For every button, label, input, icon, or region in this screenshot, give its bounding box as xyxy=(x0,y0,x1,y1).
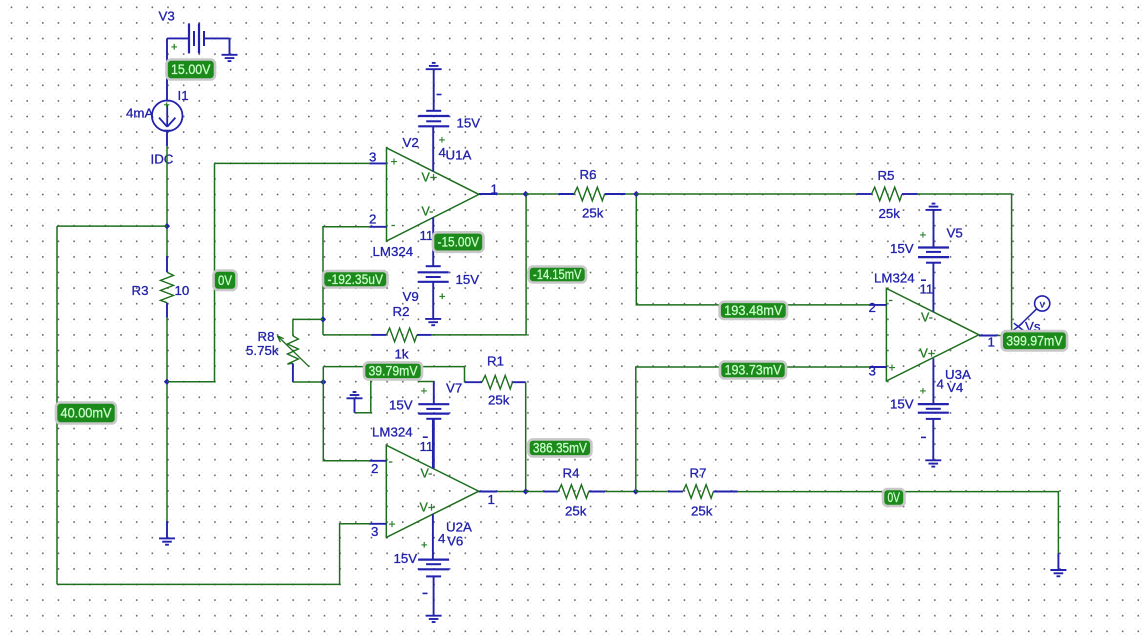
wire junction to R6 xyxy=(526,193,559,195)
svg-text:-192.35uV: -192.35uV xyxy=(328,272,384,287)
U1A output pin 1 stub xyxy=(479,193,497,195)
ground below V6 xyxy=(426,576,442,622)
resistor R1 xyxy=(465,375,526,389)
battery V6 minus mark xyxy=(423,592,428,594)
svg-text:+: + xyxy=(439,291,445,303)
svg-text:R5: R5 xyxy=(878,168,895,183)
junction node (323,382) xyxy=(320,379,326,385)
value label 193.48mV xyxy=(720,302,787,319)
svg-text:-14.15mV: -14.15mV xyxy=(533,267,582,282)
svg-text:+: + xyxy=(421,540,427,552)
wire V3 to I1 xyxy=(166,38,168,100)
svg-text:4: 4 xyxy=(937,377,944,392)
potentiometer R8 xyxy=(277,336,309,382)
U1A pin 2 stub xyxy=(369,226,386,228)
U1A pin 3 stub xyxy=(369,162,386,164)
wire junction to R4 xyxy=(526,491,544,493)
svg-text:-15.00V: -15.00V xyxy=(438,235,480,250)
svg-text:0V: 0V xyxy=(218,273,232,288)
U2A pin 3 stub xyxy=(369,523,386,525)
svg-text:I1: I1 xyxy=(178,88,189,103)
svg-text:V2: V2 xyxy=(403,135,419,150)
svg-text:39.79mV: 39.79mV xyxy=(369,364,418,379)
wire 0V net xyxy=(167,163,215,381)
svg-text:IDC: IDC xyxy=(151,152,174,167)
ground below V4 xyxy=(925,419,941,467)
wire R2 left lead xyxy=(323,334,372,336)
wire rail down to R1 xyxy=(464,367,466,383)
wire R2 to U1A output node xyxy=(432,194,526,335)
svg-text:15V: 15V xyxy=(456,272,480,287)
svg-text:25k: 25k xyxy=(879,206,901,221)
resistor R2 xyxy=(372,328,432,342)
svg-text:+: + xyxy=(439,135,445,147)
U1A V- power pin wire xyxy=(432,218,434,267)
wire R7 to bottom right ground xyxy=(738,492,1059,553)
junction node (167,382) xyxy=(164,379,170,385)
svg-text:V-: V- xyxy=(422,205,434,219)
wire rail to battery V7 xyxy=(418,381,434,383)
svg-text:3: 3 xyxy=(369,150,376,165)
svg-text:15V: 15V xyxy=(890,397,914,412)
wire left rail down xyxy=(56,226,58,584)
wire R6 to junction (636,194) xyxy=(625,193,636,195)
ground above V2 xyxy=(426,63,442,111)
svg-text:U1A: U1A xyxy=(446,148,472,163)
wire riser junction (636,491) to U3A pin 3 xyxy=(636,367,869,492)
svg-text:5.75k: 5.75k xyxy=(246,343,279,358)
ground below R3 xyxy=(159,521,175,545)
svg-text:R2: R2 xyxy=(393,304,410,319)
battery V6 xyxy=(418,560,449,577)
svg-text:15.00V: 15.00V xyxy=(171,62,211,77)
svg-text:R7: R7 xyxy=(690,466,707,481)
svg-text:R6: R6 xyxy=(580,167,597,182)
svg-text:V4: V4 xyxy=(947,380,963,395)
battery V4 xyxy=(918,404,949,419)
battery V4 minus mark xyxy=(921,436,926,438)
U2A output pin 1 stub xyxy=(479,491,497,493)
svg-text:15V: 15V xyxy=(389,398,413,413)
wire ground drop from rail xyxy=(355,367,371,413)
svg-text:+: + xyxy=(421,386,427,398)
value label 0V (output node) xyxy=(883,489,905,506)
svg-text:R8: R8 xyxy=(258,329,275,344)
battery V7 minus mark xyxy=(423,436,428,438)
junction node (636,194) xyxy=(633,191,639,197)
svg-text:11: 11 xyxy=(920,282,934,297)
svg-text:+: + xyxy=(391,155,398,169)
svg-text:+: + xyxy=(164,100,170,112)
wire U1A output to junction (526,194) xyxy=(497,193,526,195)
op-amp U1A xyxy=(387,148,479,241)
wire node (323,319) to R8 xyxy=(293,318,323,320)
wire U2A output to junction xyxy=(497,491,526,493)
svg-text:+: + xyxy=(171,42,177,54)
wire node (167,226) to left rail xyxy=(57,225,167,227)
svg-text:399.97mV: 399.97mV xyxy=(1006,333,1062,348)
wire U1A pin 2 to node (323,319) xyxy=(323,227,369,335)
svg-text:v: v xyxy=(1040,299,1045,310)
current source I1 bottom pin xyxy=(166,131,168,146)
U2A V+ power pin wire xyxy=(432,514,434,559)
svg-text:R4: R4 xyxy=(563,466,580,481)
svg-text:1: 1 xyxy=(988,335,995,350)
wire junction to R7 xyxy=(636,491,668,493)
wire bottom rail xyxy=(57,583,340,585)
battery V5 minus mark xyxy=(921,279,926,281)
svg-text:LM324: LM324 xyxy=(373,244,414,259)
junction node (526,491) xyxy=(523,488,529,494)
svg-text:11: 11 xyxy=(420,439,434,454)
wire junction to R5 xyxy=(636,193,856,195)
wire R3 to ground xyxy=(166,318,168,522)
svg-text:25k: 25k xyxy=(582,206,604,221)
svg-text:15V: 15V xyxy=(394,551,418,566)
svg-text:R3: R3 xyxy=(132,283,149,298)
wire I1 to node (167,226) xyxy=(166,146,168,256)
svg-text:25k: 25k xyxy=(488,393,510,408)
wire R8 to node (323,382) xyxy=(293,381,323,383)
battery V3 xyxy=(167,23,230,54)
current source I1 xyxy=(152,101,183,132)
svg-text:40.00mV: 40.00mV xyxy=(61,406,112,421)
resistor R6 xyxy=(558,187,625,201)
resistor R3 xyxy=(161,256,174,318)
svg-text:V+: V+ xyxy=(422,171,438,185)
U3A pin 2 stub xyxy=(869,304,886,306)
svg-text:1k: 1k xyxy=(395,347,409,362)
svg-text:V-: V- xyxy=(421,467,433,481)
battery V7 xyxy=(418,382,449,469)
value label -15.00V xyxy=(433,232,484,252)
value label 386.35mV xyxy=(528,439,591,456)
svg-text:V6: V6 xyxy=(447,534,463,549)
junction node (167,226) xyxy=(164,223,170,229)
svg-text:2: 2 xyxy=(869,300,876,315)
battery V9 xyxy=(418,266,449,282)
wire R1 to U2A output node xyxy=(525,382,527,491)
U1A V+ power pin wire xyxy=(432,126,434,171)
svg-text:V+: V+ xyxy=(420,501,436,515)
value label 39.79mV xyxy=(364,362,422,379)
svg-text:-: - xyxy=(889,292,893,307)
battery V2 xyxy=(418,111,449,127)
op-amp U2A xyxy=(386,445,478,537)
svg-text:+: + xyxy=(920,229,926,241)
svg-text:3: 3 xyxy=(371,524,378,539)
U2A V- power pin wire xyxy=(432,419,434,469)
svg-text:1: 1 xyxy=(488,492,495,507)
svg-text:3: 3 xyxy=(869,364,876,379)
svg-text:R1: R1 xyxy=(487,354,504,369)
svg-text:11: 11 xyxy=(420,228,434,243)
value label 15.00V xyxy=(167,60,216,80)
wire riser to U2A pin 3 xyxy=(340,524,370,585)
wire node riser to 39.79mV rail xyxy=(322,367,324,382)
ground bottom right xyxy=(1050,553,1066,576)
value label 399.97mV xyxy=(1002,331,1067,350)
junction node (323,319) xyxy=(320,316,326,322)
U2A pin 2 stub xyxy=(369,460,386,462)
svg-text:4: 4 xyxy=(438,531,445,546)
svg-text:V5: V5 xyxy=(947,226,963,241)
svg-text:25k: 25k xyxy=(565,504,587,519)
value label 0V (R3 node) xyxy=(214,271,237,291)
svg-text:2: 2 xyxy=(371,461,378,476)
wire R5 to U3A output node xyxy=(918,194,1012,336)
svg-text:LM324: LM324 xyxy=(372,425,413,440)
svg-text:V9: V9 xyxy=(403,289,419,304)
op-amp U3A xyxy=(886,288,979,381)
svg-text:-: - xyxy=(391,217,395,232)
svg-text:V+: V+ xyxy=(920,347,936,361)
wire 39.79mV rail xyxy=(323,366,464,368)
current source I1 minus mark xyxy=(164,129,170,131)
resistor R5 xyxy=(857,187,918,201)
svg-text:10: 10 xyxy=(175,283,190,298)
battery V5 xyxy=(918,248,949,263)
junction node (636,491) xyxy=(633,488,639,494)
probe Vs xyxy=(1013,296,1050,331)
svg-text:V7: V7 xyxy=(446,381,462,396)
battery V2 minus mark xyxy=(437,94,442,96)
svg-text:LM324: LM324 xyxy=(874,271,915,286)
svg-text:386.35mV: 386.35mV xyxy=(533,441,587,456)
svg-text:+: + xyxy=(389,517,396,531)
svg-text:25k: 25k xyxy=(691,504,713,519)
svg-text:4mA: 4mA xyxy=(126,106,153,121)
U3A pin 3 stub xyxy=(869,366,886,368)
svg-text:+: + xyxy=(920,385,926,397)
wire U1A pin 3 net xyxy=(215,162,370,164)
resistor R7 xyxy=(668,485,738,499)
ground below V9 xyxy=(425,282,441,325)
svg-text:-: - xyxy=(389,454,393,469)
svg-text:193.48mV: 193.48mV xyxy=(724,303,782,318)
wire U3A output to node xyxy=(997,335,1012,337)
svg-text:193.73mV: 193.73mV xyxy=(725,363,782,378)
value label -192.35uV xyxy=(323,271,388,288)
wire node (323,382) to U2A pin 2 xyxy=(323,382,369,461)
svg-text:V3: V3 xyxy=(159,9,175,24)
junction node (526,194) xyxy=(523,191,529,197)
U3A V- power pin wire xyxy=(932,263,934,312)
value label 40.00mV xyxy=(56,403,116,424)
value label 193.73mV xyxy=(720,362,786,379)
svg-text:+: + xyxy=(889,361,896,375)
svg-text:2: 2 xyxy=(369,212,376,227)
ground for V3 xyxy=(222,55,238,61)
value label -14.15mV xyxy=(529,267,587,283)
svg-text:15V: 15V xyxy=(457,116,481,131)
svg-text:15V: 15V xyxy=(890,241,914,256)
wire junction (636,194) to U3A pin 2 xyxy=(636,194,869,305)
inverted ground on 39.79mV net xyxy=(347,392,363,413)
wire R4 to junction (636,491) xyxy=(605,491,636,493)
svg-text:V-: V- xyxy=(921,311,933,325)
ground above V5 xyxy=(926,204,942,248)
svg-text:U2A: U2A xyxy=(446,520,472,535)
svg-text:0V: 0V xyxy=(888,490,901,505)
U3A output pin 1 stub xyxy=(979,335,997,337)
svg-text:1: 1 xyxy=(491,182,498,197)
U3A V+ power pin wire xyxy=(932,358,934,404)
resistor R4 xyxy=(543,485,605,499)
